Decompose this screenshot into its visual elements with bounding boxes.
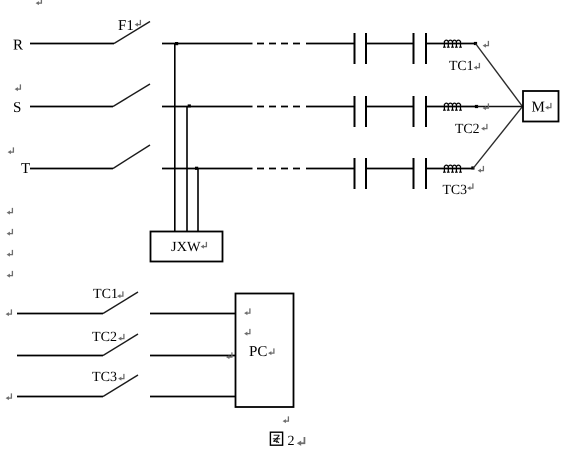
paragraph mark margin 2 — [7, 229, 13, 236]
wire TC1 row right to PC — [150, 313, 235, 315]
contact K3b plate 1 (row T) — [413, 158, 415, 189]
paragraph mark margin 1 — [7, 208, 13, 215]
wire TC2 row right to PC — [150, 355, 235, 357]
wire T diagonal to motor — [473, 107, 523, 169]
contact K3b plate 2 (row T) — [425, 158, 427, 189]
switch blade on R (F1) — [114, 22, 150, 44]
svg-text:TC2: TC2 — [455, 122, 480, 137]
heater element TC1 (mm) — [443, 40, 462, 47]
wire S left segment — [30, 106, 113, 108]
wire R diagonal to motor — [476, 44, 523, 107]
paragraph mark after PC — [268, 348, 274, 355]
wire R right segment solid — [162, 43, 253, 45]
node dot row S — [475, 105, 478, 108]
paragraph mark top — [36, 0, 42, 5]
svg-text:T: T — [21, 161, 30, 177]
contact K3a plate 2 (row T) — [365, 158, 367, 189]
wire TC3 row left — [17, 396, 103, 398]
wire TC2 row left — [17, 355, 103, 357]
wire T right segment to contact — [306, 168, 355, 170]
switch blade on S — [113, 84, 150, 107]
paragraph mark below PC — [283, 416, 289, 423]
svg-text:TC3: TC3 — [443, 183, 468, 198]
wire TC3 row right to PC — [150, 396, 235, 398]
svg-text:TC1: TC1 — [449, 59, 474, 74]
svg-text:F1: F1 — [118, 18, 134, 34]
contact K1b plate 2 (row R) — [425, 33, 427, 64]
switch blade TC1 — [103, 292, 138, 314]
controller box PC — [236, 294, 294, 408]
wire drop from S to JXW — [186, 107, 188, 232]
wire contact to heater row R — [426, 43, 476, 45]
paragraph mark in PC box 2 — [244, 329, 250, 336]
paragraph mark at PC left edge — [226, 352, 232, 359]
relay box JXW — [151, 232, 223, 262]
contact K2b plate 2 (row S) — [425, 96, 427, 127]
paragraph mark after R node — [483, 41, 489, 48]
wire S to motor — [477, 106, 523, 108]
switch blade TC2 — [103, 334, 138, 356]
switch blade TC3 — [103, 375, 138, 397]
wire R left segment — [30, 43, 114, 45]
paragraph mark after JXW — [201, 242, 207, 249]
paragraph mark after M — [545, 103, 551, 110]
svg-text:JXW: JXW — [171, 240, 201, 255]
wire between contacts row T — [366, 168, 414, 170]
wire R right segment to contact — [306, 43, 355, 45]
wire R dashed segment — [257, 43, 301, 45]
contact K2b plate 1 (row S) — [413, 96, 415, 127]
caption glyph 图 — [270, 432, 282, 445]
paragraph mark margin 3 — [7, 250, 13, 257]
contact K3a plate 1 (row T) — [354, 158, 356, 189]
wire drop from R to JXW — [174, 44, 176, 232]
paragraph mark in PC box 1 — [244, 308, 250, 315]
junction node on R — [175, 42, 178, 45]
wire S right segment to contact — [306, 106, 355, 108]
paragraph mark after caption — [297, 437, 305, 446]
node dot row R — [474, 42, 477, 45]
paragraph mark after TC3 lower — [118, 374, 124, 381]
svg-text:PC: PC — [249, 344, 267, 360]
paragraph mark margin 4 — [7, 271, 13, 278]
svg-text:M: M — [532, 100, 545, 116]
heater element TC2 (mm) — [443, 103, 462, 110]
paragraph mark after TC3 label — [467, 183, 473, 190]
wire TC1 row left — [17, 313, 103, 315]
wire between contacts row S — [366, 106, 414, 108]
paragraph mark after TC1 lower — [117, 291, 123, 298]
wire contact to heater row S — [426, 106, 477, 108]
svg-text:TC2: TC2 — [92, 330, 117, 345]
svg-text:TC1: TC1 — [93, 287, 118, 302]
wire contact to heater row T — [426, 168, 473, 170]
node dot row T — [471, 166, 474, 169]
wire S dashed segment — [257, 106, 301, 108]
wire T left segment — [30, 168, 113, 170]
paragraph mark after TC2 label — [481, 124, 487, 131]
svg-text:S: S — [13, 100, 21, 116]
paragraph mark left of TC1 row — [6, 309, 12, 316]
paragraph mark after TC1 label — [474, 63, 480, 70]
paragraph mark left of TC3 row — [6, 393, 12, 400]
wire between contacts row R — [366, 43, 414, 45]
paragraph mark left of S — [15, 84, 21, 91]
junction node on S — [188, 104, 191, 107]
svg-text:TC3: TC3 — [92, 370, 117, 385]
wire drop from T to JXW — [197, 169, 199, 232]
contact K1a plate 2 (row R) — [365, 33, 367, 64]
contact K1a plate 1 (row R) — [354, 33, 356, 64]
paragraph mark after T node — [478, 166, 484, 173]
contact K2a plate 1 (row S) — [354, 96, 356, 127]
svg-text:R: R — [13, 38, 23, 54]
switch blade on T — [113, 145, 150, 169]
paragraph mark after F1 — [135, 20, 141, 27]
contact K2a plate 2 (row S) — [365, 96, 367, 127]
paragraph mark left of T — [8, 147, 14, 154]
paragraph mark after S node — [483, 103, 489, 110]
motor box M — [523, 91, 559, 122]
junction node on T — [195, 167, 198, 170]
wire T dashed segment — [257, 168, 301, 170]
svg-text:2: 2 — [288, 434, 295, 449]
heater element TC3 (mm) — [443, 165, 462, 172]
wire T right segment solid — [162, 168, 253, 170]
wire S right segment solid — [162, 106, 253, 108]
paragraph mark after TC2 lower — [118, 334, 124, 341]
contact K1b plate 1 (row R) — [413, 33, 415, 64]
